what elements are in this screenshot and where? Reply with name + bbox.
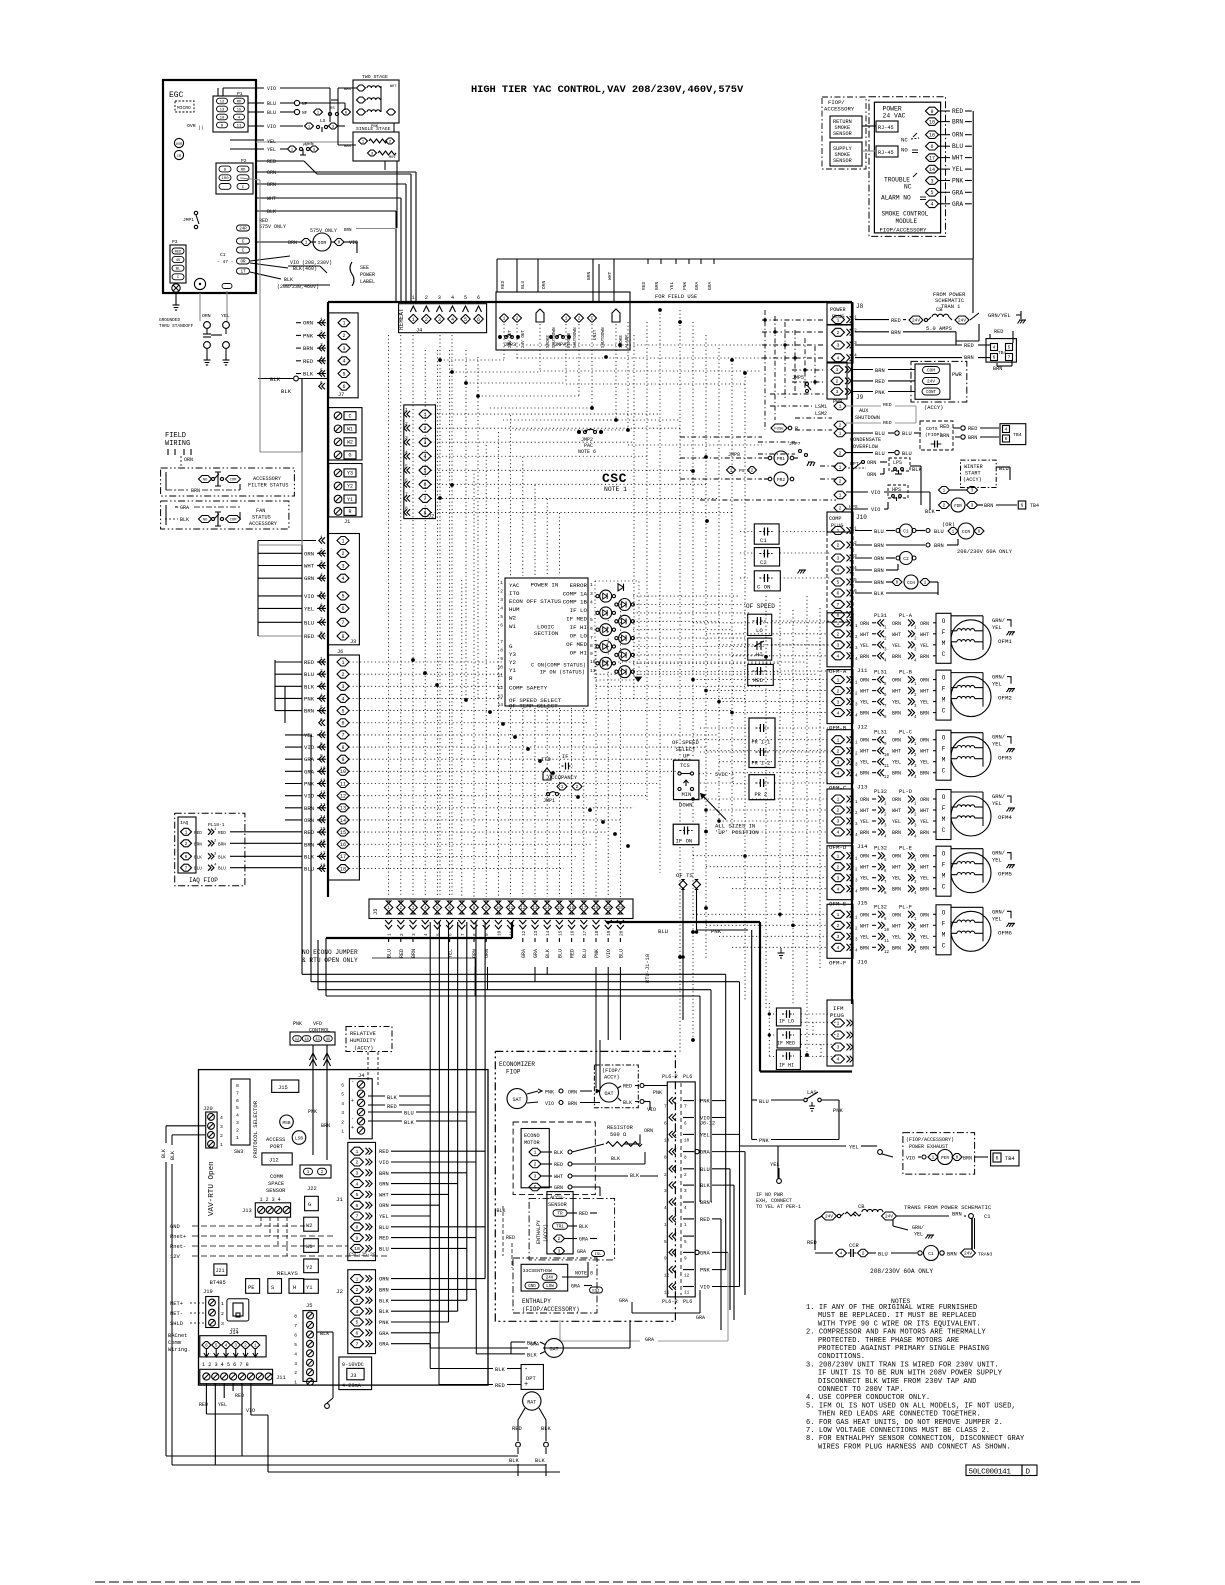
svg-text:YEL: YEL	[892, 760, 901, 766]
svg-text:Y1: Y1	[306, 1285, 312, 1291]
svg-text:6: 6	[684, 1122, 687, 1127]
svg-text:9: 9	[356, 1235, 359, 1241]
svg-text:RED: RED	[700, 1217, 710, 1223]
svg-text:5: 5	[341, 708, 344, 714]
svg-text:F: F	[942, 920, 946, 927]
svg-text:GRA: GRA	[700, 1250, 710, 1256]
svg-text:11: 11	[664, 1291, 670, 1296]
svg-text:ACCESS: ACCESS	[266, 1137, 285, 1143]
smoke shutdown terminal strip	[496, 292, 630, 350]
thermostat OF TS	[658, 872, 748, 1020]
svg-text:24V: 24V	[958, 319, 966, 324]
connector J22	[300, 1165, 331, 1192]
svg-text:YEL: YEL	[379, 1214, 389, 1220]
svg-text:WHT: WHT	[920, 689, 929, 695]
svg-text:RED: RED	[875, 379, 885, 385]
svg-text:WHT: WHT	[892, 808, 901, 814]
svg-text:7: 7	[684, 1105, 687, 1110]
svg-text:4: 4	[837, 770, 840, 776]
svg-text:BLK: BLK	[218, 855, 226, 860]
SMOKE CONTROL MODULE box	[869, 97, 946, 237]
svg-text:5: 5	[664, 1240, 667, 1245]
svg-text:(ACCY): (ACCY)	[963, 477, 982, 483]
svg-text:BRN: BRN	[875, 368, 885, 374]
svg-text:SW3: SW3	[234, 1149, 243, 1155]
svg-text:ORN: ORN	[892, 854, 901, 860]
sensor RAT	[509, 1392, 551, 1476]
svg-text:ENTHALPY: ENTHALPY	[536, 1220, 542, 1244]
svg-text:YEL: YEL	[669, 281, 675, 290]
svg-text:1: 1	[837, 621, 840, 627]
svg-text:BRN: BRN	[379, 1171, 389, 1177]
svg-text:+: +	[351, 1125, 354, 1131]
svg-text:WHT: WHT	[554, 1174, 563, 1180]
svg-text:O: O	[942, 618, 946, 625]
svg-text:C: C	[591, 316, 594, 322]
svg-text:3: 3	[500, 597, 503, 603]
svg-text:PL6: PL6	[683, 1299, 692, 1305]
svg-text:9: 9	[684, 1256, 687, 1261]
contact PR 2	[749, 775, 775, 800]
svg-text:ORN: ORN	[267, 170, 276, 176]
svg-text:TB4: TB4	[1005, 1156, 1015, 1162]
svg-text:ORN: ORN	[184, 457, 193, 463]
svg-text:1 2 3 4 5 6 7 8: 1 2 3 4 5 6 7 8	[202, 1362, 249, 1368]
svg-text:5: 5	[341, 1092, 344, 1098]
svg-text:4: 4	[500, 606, 503, 612]
svg-text:LAS: LAS	[807, 1090, 817, 1096]
svg-text:WHT: WHT	[892, 865, 901, 871]
svg-text:BRN: BRN	[194, 842, 202, 847]
svg-text:C2: C2	[903, 556, 909, 562]
svg-text:O: O	[942, 735, 946, 742]
svg-text:YEL: YEL	[860, 934, 869, 940]
svg-text:2: 2	[839, 423, 842, 429]
svg-text:4: 4	[225, 1344, 228, 1349]
svg-text:8: 8	[684, 1156, 687, 1161]
svg-text:BLK: BLK	[303, 371, 314, 378]
svg-text:FAN: FAN	[256, 508, 265, 514]
svg-text:C: C	[942, 708, 946, 715]
svg-text:8: 8	[341, 634, 344, 640]
svg-text:C ON: C ON	[757, 584, 770, 591]
svg-text:J15: J15	[278, 1085, 288, 1091]
svg-text:1: 1	[503, 316, 506, 322]
svg-text:10: 10	[664, 1138, 670, 1143]
svg-text:G: G	[308, 1202, 311, 1208]
label RELAYS	[277, 1270, 298, 1277]
wire BLU NF 2	[248, 107, 351, 116]
svg-text:3: 3	[837, 819, 840, 825]
svg-text:1: 1	[305, 240, 308, 246]
svg-text:POWER IN: POWER IN	[531, 582, 559, 589]
svg-text:RED: RED	[506, 1235, 515, 1241]
svg-text:ORN: ORN	[304, 550, 314, 557]
svg-text:BLK: BLK	[267, 209, 276, 215]
svg-text:PNK: PNK	[682, 281, 688, 290]
svg-text:11: 11	[510, 930, 515, 936]
svg-text:POWER: POWER	[830, 307, 846, 313]
terminal stub	[222, 284, 232, 289]
wire J5 bottom bus	[302, 967, 740, 1202]
svg-text:4: 4	[341, 696, 344, 702]
connector J21 BT485	[210, 1264, 227, 1286]
bottom page border	[95, 1581, 1140, 1583]
svg-text:BLU: BLU	[875, 451, 885, 457]
svg-text:9: 9	[930, 109, 933, 115]
svg-text:BLU: BLU	[267, 101, 276, 107]
svg-text:2. COMPRESSOR AND FAN MOTORS A: 2. COMPRESSOR AND FAN MOTORS ARE THERMAL…	[806, 1329, 987, 1337]
svg-text:WIRING: WIRING	[165, 440, 190, 448]
svg-text:YEL: YEL	[920, 876, 929, 882]
svg-text:6. FOR GAS HEAT UNITS, DO NOT: 6. FOR GAS HEAT UNITS, DO NOT REMOVE JUM…	[806, 1419, 1003, 1427]
svg-text:TCS: TCS	[680, 763, 690, 769]
svg-text:G: G	[509, 643, 513, 650]
svg-text:1: 1	[836, 367, 839, 373]
svg-text:TB4: TB4	[998, 350, 1007, 356]
connector J2 board	[336, 1270, 485, 1354]
svg-text:BT485: BT485	[210, 1280, 226, 1286]
svg-text:3: 3	[341, 563, 344, 569]
jack J17	[227, 1299, 249, 1333]
svg-text:14: 14	[545, 907, 551, 911]
jumper JMP1	[183, 211, 199, 228]
svg-text:BLU: BLU	[387, 949, 393, 958]
svg-text:1: 1	[341, 660, 344, 666]
svg-text:4: 4	[356, 1181, 359, 1187]
contactor C1 wiring BRN	[855, 539, 1013, 555]
connector J19	[170, 1289, 224, 1328]
svg-text:LS: LS	[320, 119, 326, 124]
svg-text:TROUBLE: TROUBLE	[884, 177, 910, 184]
svg-text:PNK: PNK	[545, 1090, 554, 1096]
note SEE POWER LABEL	[360, 265, 375, 285]
svg-text:ORN: ORN	[892, 738, 901, 744]
svg-text:MOV: MOV	[389, 156, 396, 160]
svg-text:COM: COM	[230, 478, 238, 482]
svg-text:RED: RED	[641, 281, 647, 290]
svg-text:C: C	[348, 414, 351, 420]
svg-text:PNK: PNK	[303, 332, 314, 339]
svg-text:5: 5	[294, 1342, 297, 1348]
svg-text:C1: C1	[984, 1214, 990, 1220]
svg-text:POWER: POWER	[883, 106, 902, 113]
wire field-use drop bus	[497, 259, 973, 313]
svg-text:OAT: OAT	[604, 1091, 613, 1097]
relay Y2	[304, 1259, 319, 1273]
svg-text:20: 20	[618, 907, 624, 911]
svg-text:ORN: ORN	[892, 912, 901, 918]
svg-text:WIRES FROM PLUG HARNESS AND CO: WIRES FROM PLUG HARNESS AND CONNECT AS S…	[818, 1443, 1011, 1451]
svg-text:VIO: VIO	[700, 1285, 710, 1291]
connector J10 COMP PLUG	[827, 512, 867, 622]
svg-text:W2: W2	[347, 440, 353, 446]
svg-text:BRN: BRN	[968, 435, 977, 441]
svg-text:VIO: VIO	[379, 1160, 389, 1166]
svg-text:GRA: GRA	[379, 1342, 389, 1348]
svg-text:4: 4	[236, 1113, 239, 1119]
svg-text:9: 9	[590, 651, 593, 657]
svg-text:3: 3	[837, 1045, 840, 1051]
label RTU-J1-10	[645, 954, 651, 983]
svg-text:GRA: GRA	[694, 281, 700, 290]
svg-text:3: 3	[438, 317, 441, 323]
svg-text:10: 10	[884, 929, 890, 933]
svg-text:10: 10	[684, 1138, 690, 1143]
svg-text:PNK: PNK	[594, 949, 600, 958]
svg-text:C1: C1	[903, 529, 909, 535]
svg-text:4: 4	[837, 710, 840, 716]
svg-text:6: 6	[341, 1083, 344, 1089]
svg-text:CONTROL: CONTROL	[309, 1028, 330, 1034]
svg-text:BRN: BRN	[892, 711, 901, 717]
svg-text:PNK: PNK	[875, 390, 885, 396]
svg-text:ORN: ORN	[860, 797, 869, 803]
svg-text:BLK: BLK	[630, 1173, 639, 1179]
svg-text:13: 13	[340, 806, 346, 812]
svg-text:PR 2: PR 2	[755, 792, 767, 798]
svg-text:24 VAC: 24 VAC	[883, 113, 906, 120]
svg-text:GRA: GRA	[696, 1315, 705, 1321]
svg-text:OF MED: OF MED	[566, 641, 587, 648]
svg-text:NET-: NET-	[170, 1311, 183, 1317]
svg-text:6: 6	[1021, 503, 1024, 509]
svg-text:BLK: BLK	[623, 1100, 632, 1106]
svg-text:8: 8	[664, 1156, 667, 1161]
svg-text:BRN: BRN	[267, 182, 276, 188]
relay W1	[304, 1239, 319, 1253]
svg-text:2: 2	[356, 1287, 359, 1293]
wire mesh dotted ifm	[768, 1003, 836, 1057]
svg-text:1: 1	[664, 1223, 667, 1228]
svg-text:1: 1	[837, 853, 840, 859]
svg-text:WHT: WHT	[860, 689, 869, 695]
svg-text:BRN: BRN	[860, 654, 869, 660]
wire left bus to J3	[240, 178, 316, 636]
svg-text:BLU: BLU	[618, 949, 624, 958]
svg-text:BRN: BRN	[654, 281, 660, 290]
wire BLK J20	[161, 1126, 205, 1465]
svg-text:6: 6	[341, 721, 344, 727]
connector J20	[203, 1106, 223, 1148]
svg-text:(FIOP/ACCESSORY): (FIOP/ACCESSORY)	[906, 1137, 954, 1143]
svg-text:7: 7	[1008, 355, 1011, 361]
svg-text:ORN: ORN	[920, 854, 929, 860]
svg-text:1: 1	[837, 317, 840, 323]
svg-text:SHUTDOWN: SHUTDOWN	[573, 327, 578, 348]
svg-text:4: 4	[423, 454, 426, 460]
fan motor OFM2 circuit	[827, 670, 1015, 732]
svg-text:1: 1	[684, 1223, 687, 1228]
svg-text:1: 1	[561, 784, 564, 790]
svg-text:6: 6	[837, 591, 840, 597]
wire YEL 2 with P5	[230, 144, 319, 155]
svg-text:BLU: BLU	[267, 110, 276, 116]
label FIELD WIRING	[165, 432, 193, 468]
labels GND Rnet 12V	[170, 1217, 390, 1260]
svg-text:2: 2	[837, 543, 840, 549]
svg-text:GRA: GRA	[304, 768, 315, 775]
svg-text:PNK: PNK	[653, 1090, 662, 1096]
svg-text:5: 5	[837, 580, 840, 586]
svg-text:1: 1	[294, 1380, 297, 1386]
svg-text:J4: J4	[416, 328, 422, 334]
svg-text:COMP 1A: COMP 1A	[563, 591, 588, 598]
svg-text:2: 2	[837, 1033, 840, 1039]
svg-text:ORN: ORN	[874, 556, 884, 562]
svg-text:NO: NO	[203, 518, 208, 522]
svg-text:YEL: YEL	[892, 819, 901, 825]
connector J3 0-10VDC	[339, 1357, 372, 1390]
svg-text:YEL: YEL	[860, 760, 869, 766]
svg-text:OFM5: OFM5	[998, 871, 1012, 878]
svg-text:BRN: BRN	[304, 805, 314, 812]
svg-text:2: 2	[836, 379, 839, 385]
svg-text:VIO: VIO	[304, 593, 315, 600]
label FROM POWER SCHEMATIC TRAN 1	[933, 292, 966, 310]
svg-text:HPS: HPS	[892, 487, 901, 493]
svg-text:IAQ: IAQ	[180, 820, 189, 826]
svg-text:RELAYS: RELAYS	[277, 1270, 298, 1277]
resistor 500 ohm	[572, 1125, 658, 1196]
svg-text:2: 2	[341, 672, 344, 678]
svg-text:BLK: BLK	[579, 1224, 588, 1230]
svg-text:EGC: EGC	[169, 91, 184, 100]
svg-text:GRN/: GRN/	[912, 1225, 924, 1231]
svg-text:BRN: BRN	[860, 945, 869, 951]
svg-text:ESI: ESI	[592, 1289, 599, 1293]
svg-text:2: 2	[244, 1344, 247, 1349]
svg-text:3: 3	[684, 1189, 687, 1194]
svg-text:WHT: WHT	[892, 689, 901, 695]
svg-text:FUSE: FUSE	[774, 427, 784, 431]
label PNK BRN vertical wires	[308, 1109, 330, 1129]
svg-text:BLK(460): BLK(460)	[293, 266, 317, 272]
wire RED J8-3	[855, 343, 990, 349]
chip MSB	[280, 1115, 294, 1129]
svg-text:OVERFLOW: OVERFLOW	[853, 444, 879, 450]
svg-text:OF SPEED: OF SPEED	[746, 603, 775, 610]
svg-text:RED: RED	[940, 424, 949, 430]
switch HPS	[834, 485, 940, 515]
svg-text:16: 16	[340, 842, 346, 848]
svg-text:PL31: PL31	[874, 730, 887, 736]
contact IF ON	[673, 824, 708, 845]
svg-text:2: 2	[837, 632, 840, 638]
condensate overflow pins	[834, 429, 921, 457]
svg-text:24R: 24R	[239, 228, 247, 232]
label BACnet Comm Wiring	[168, 1333, 191, 1353]
svg-text:5. IFM OL IS NOT USED ON ALL M: 5. IFM OL IS NOT USED ON ALL MODELS, IF …	[806, 1402, 1016, 1410]
svg-text:GND: GND	[528, 1285, 536, 1289]
notes text block	[806, 1298, 1025, 1451]
wire VIO LS	[248, 119, 345, 132]
wire BLK to J7	[258, 376, 328, 560]
svg-text:8. FOR ENTHALPHY SENSOR CONNEC: 8. FOR ENTHALPHY SENSOR CONNECTION, DISC…	[806, 1435, 1025, 1443]
wire ORN long	[256, 170, 416, 302]
svg-text:3: 3	[341, 1110, 344, 1116]
svg-text:3: 3	[837, 343, 840, 349]
svg-text:4: 4	[837, 355, 840, 361]
connector P3	[170, 239, 186, 283]
svg-text:BLU: BLU	[379, 1225, 389, 1231]
svg-text:+: +	[351, 1098, 354, 1104]
svg-text:10: 10	[929, 119, 935, 125]
svg-text:VAV-RTU Open: VAV-RTU Open	[208, 1161, 216, 1216]
svg-text:BRN: BRN	[321, 1123, 330, 1129]
svg-text:2: 2	[837, 808, 840, 814]
svg-text:GRA: GRA	[700, 1150, 710, 1156]
svg-text:J8: J8	[856, 303, 864, 310]
svg-text:1: 1	[185, 829, 188, 835]
svg-text:ECONO: ECONO	[524, 1133, 540, 1139]
svg-text:GRN/: GRN/	[992, 675, 1005, 681]
svg-text:YEL: YEL	[221, 313, 230, 319]
svg-text:Y2: Y2	[509, 659, 516, 666]
svg-text:WHT: WHT	[860, 865, 869, 871]
svg-text:PNK: PNK	[833, 1108, 843, 1114]
svg-text:YEL: YEL	[849, 1145, 859, 1151]
svg-text:CONDENSATE: CONDENSATE	[850, 437, 881, 443]
svg-text:3: 3	[837, 643, 840, 649]
svg-text:16: 16	[569, 907, 575, 911]
svg-text:RD: RD	[237, 100, 242, 104]
svg-text:3: 3	[837, 699, 840, 705]
svg-text:WHT: WHT	[860, 808, 869, 814]
svg-text:Y2: Y2	[347, 484, 353, 490]
RJ-45 jack return	[862, 121, 898, 132]
svg-text:2: 2	[578, 316, 581, 322]
svg-text:BRN: BRN	[920, 654, 929, 660]
connector J5 board	[294, 1303, 316, 1386]
svg-text:WHT: WHT	[390, 85, 397, 89]
svg-text:3: 3	[534, 1174, 537, 1180]
svg-text:BLU: BLU	[582, 949, 588, 958]
svg-text:OVR: OVR	[187, 123, 196, 129]
svg-text:IF UNIT IS TO BE RUN WITH 208V: IF UNIT IS TO BE RUN WITH 208V POWER SUP…	[818, 1370, 1003, 1378]
svg-text:3: 3	[221, 1321, 224, 1327]
svg-text:WHT: WHT	[892, 632, 901, 638]
svg-text:YEL: YEL	[892, 934, 901, 940]
svg-text:1: 1	[388, 933, 393, 936]
transformer SINGLE STAGE	[338, 126, 399, 161]
svg-text:POWER EXHAUST: POWER EXHAUST	[909, 1144, 948, 1150]
svg-text:1. IF ANY OF THE ORIGINAL WIRE: 1. IF ANY OF THE ORIGINAL WIRE FURNISHED	[806, 1304, 977, 1312]
svg-text:WHT: WHT	[607, 271, 613, 280]
svg-text:IAQ FIOP: IAQ FIOP	[189, 877, 218, 884]
svg-text:ORN: ORN	[867, 460, 876, 466]
svg-text:20: 20	[619, 930, 624, 936]
field switch ORN YEL	[200, 291, 230, 365]
svg-text:2: 2	[294, 1370, 297, 1376]
wire mesh dotted horizontals J2	[431, 414, 732, 512]
svg-text:WHT: WHT	[860, 632, 869, 638]
svg-text:M: M	[942, 816, 946, 823]
wire mesh dash-dot J8 area	[680, 310, 836, 500]
svg-text:24V: 24V	[825, 1215, 833, 1220]
wire BRN long	[256, 182, 406, 302]
svg-text:7. LOW VOLTAGE CONNECTIONS MUS: 7. LOW VOLTAGE CONNECTIONS MUST BE CLASS…	[806, 1427, 990, 1435]
svg-text:PL32: PL32	[874, 846, 887, 852]
svg-text:ORN: ORN	[860, 854, 869, 860]
fan motor OFM1 circuit	[827, 613, 1015, 675]
svg-text:BLK: BLK	[379, 1298, 389, 1304]
svg-text:FILTER STATUS: FILTER STATUS	[248, 483, 288, 489]
svg-text:LABEL: LABEL	[360, 279, 375, 285]
svg-text:ORN: ORN	[860, 912, 869, 918]
svg-text:1: 1	[943, 489, 946, 494]
svg-text:RED: RED	[570, 949, 576, 958]
